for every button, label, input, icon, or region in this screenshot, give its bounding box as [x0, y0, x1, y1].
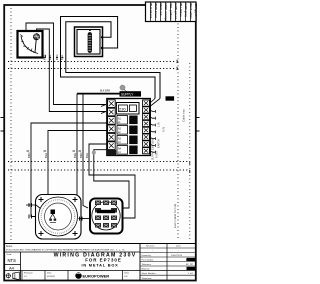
svg-text:GRN green: GRN green: [174, 3, 178, 19]
svg-text:Revision: Revision: [146, 246, 155, 248]
X1 bottom label: [107, 150, 116, 156]
wire colour legend table: [146, 2, 198, 22]
junction dot grey: [120, 85, 125, 90]
wire E terminal row6 to fan unit right: [89, 144, 135, 218]
supply drop wire BLK to motor: [54, 94, 77, 212]
svg-text:G/Y g/yel: G/Y g/yel: [194, 3, 198, 16]
wire crossing labels top boundary: [43, 54, 65, 60]
wire W4 terminal row4 to motor hub: [48, 131, 107, 212]
projection symbol: [21, 271, 23, 281]
svg-text:A4: A4: [9, 266, 15, 271]
enclosure dashed boundary top pair: [8, 61, 177, 63]
X1 left terminals: [108, 100, 116, 150]
X1 relay row 3: [117, 136, 128, 145]
svg-text:BLK BRN: BLK BRN: [100, 90, 111, 93]
heater element capsule: [88, 33, 92, 53]
thermostat dial ticks: [20, 35, 32, 52]
svg-text:BRN: BRN: [27, 152, 31, 158]
svg-text:EUROPOWER: EUROPOWER: [83, 273, 110, 278]
title block: [4, 244, 196, 281]
svg-text:Cable tray: Cable tray: [182, 109, 186, 122]
X1 right terminals: [143, 100, 150, 154]
europower logo: [75, 272, 81, 278]
X1 relay row 2: [117, 126, 128, 135]
right outer dotted line: [189, 63, 191, 240]
X1 controller box: [116, 103, 139, 115]
svg-text:J.C.: J.C.: [24, 276, 28, 278]
svg-text:Telephone: Telephone: [142, 278, 153, 280]
svg-text:BLU: BLU: [44, 153, 48, 158]
junction dot on wire F: [92, 151, 96, 155]
motor M1 hub: [51, 210, 56, 215]
svg-text:SUPPLY: SUPPLY: [121, 92, 134, 96]
right inner dotted line: [177, 20, 179, 240]
motor M1 corner screws: [39, 197, 78, 236]
svg-text:Notes:: Notes:: [6, 245, 13, 248]
svg-text:U.K.: U.K.: [124, 276, 128, 278]
svg-text:BLU blue: BLU blue: [179, 3, 183, 17]
X1 relay row 4: [117, 146, 128, 155]
svg-text:Date: Date: [176, 245, 181, 248]
svg-text:1 of 1: 1 of 1: [188, 273, 194, 275]
fan unit left stubs: [79, 217, 91, 221]
X1 right stub wires: [149, 110, 155, 152]
svg-text:IF IN DOUBT ASK. THIS DRAWING: IF IN DOUBT ASK. THIS DRAWING IS COPYRIG…: [6, 249, 126, 252]
svg-text:IN METAL BOX: IN METAL BOX: [81, 263, 118, 268]
svg-text:L IN: L IN: [157, 122, 161, 127]
title block outer top line: [4, 243, 196, 245]
terminal block X1 outline: [107, 99, 151, 156]
X1 relay tiny text: [118, 119, 122, 155]
svg-text:BLK: BLK: [73, 153, 77, 158]
wire loop A heater to terminal block top: [61, 17, 156, 99]
terminal entry diagonals at top right: [151, 99, 161, 107]
fan unit center bar: [97, 210, 115, 213]
motor M1 inner circle: [45, 203, 72, 230]
right table: [139, 244, 141, 281]
notes row divider: [4, 251, 140, 253]
svg-text:ORG orange: ORG orange: [164, 3, 168, 22]
svg-text:15/07/2013: 15/07/2013: [171, 255, 183, 257]
wire crossing labels bottom boundary: [27, 152, 89, 158]
motor M1 text ring dotted: [41, 200, 75, 234]
supply label black box right: [166, 96, 175, 100]
drawing frame: [4, 5, 196, 281]
thermostat TH1 enclosure: [18, 31, 43, 58]
enclosure dashed boundary bottom pair: [8, 161, 190, 163]
svg-text:Telep: Telep: [124, 273, 130, 275]
svg-text:EARTH: EARTH: [157, 139, 161, 148]
motor M1 outer ring: [39, 197, 78, 236]
svg-text:YEL yellow: YEL yellow: [169, 3, 173, 20]
motor hub stubs: [50, 214, 55, 219]
wire W3 terminal row3 to motor left: [31, 123, 107, 217]
svg-text:NTS: NTS: [8, 258, 17, 263]
svg-text:Drawn by: Drawn by: [142, 254, 152, 257]
motor left connector marks: [29, 203, 32, 219]
supply cable thick wire: [77, 93, 120, 95]
svg-text:Earth cable from lid: Earth cable from lid: [173, 203, 177, 228]
fan unit C1 body: [90, 199, 123, 234]
wire loop B heater to terminal block top: [66, 22, 160, 99]
svg-text:Part number: Part number: [142, 259, 154, 262]
svg-text:RED red: RED red: [159, 3, 163, 15]
svg-text:BLK black: BLK black: [149, 3, 153, 18]
left column cells: [20, 252, 22, 281]
fan unit circle: [92, 202, 120, 230]
svg-text:BRN brwn: BRN brwn: [154, 3, 158, 18]
svg-text:GRY grey: GRY grey: [184, 3, 188, 17]
heater element E1 enclosure: [75, 27, 103, 57]
svg-text:05/2008: 05/2008: [47, 276, 55, 278]
svg-text:Firmware: Firmware: [24, 272, 34, 275]
frame centering ticks: [1, 118, 200, 132]
thermostat knob: [33, 34, 39, 40]
fan unit terminal grid: [95, 201, 117, 228]
svg-text:N IN: N IN: [162, 127, 166, 132]
left margin dotted line: [10, 8, 12, 240]
thermostat dial arc: [21, 36, 34, 52]
svg-text:Sheet Number: Sheet Number: [142, 272, 156, 275]
svg-text:Scale: Scale: [7, 254, 13, 256]
motor M1 flange: [36, 195, 82, 240]
right stub labels: [157, 122, 166, 148]
thermostat pointer: [35, 39, 36, 53]
svg-text:230: 230: [119, 106, 126, 111]
X1 relay row 1: [117, 116, 128, 125]
supply cable label: [120, 91, 142, 96]
bottom band dividers: [44, 271, 46, 281]
wire T1 thermostat to terminal X1 row1: [26, 23, 106, 105]
wire F terminal bottom to fan unit right: [94, 150, 129, 208]
svg-text:N OUT: N OUT: [156, 150, 159, 158]
svg-text:WHT white: WHT white: [189, 3, 193, 19]
svg-text:BRN: BRN: [79, 152, 83, 158]
supply drop wire BRN to fan unit: [83, 94, 88, 208]
svg-text:Tolerance: Tolerance: [142, 263, 152, 266]
wire T2 thermostat knob to terminal X1 row2: [37, 29, 107, 112]
svg-text:BLU: BLU: [85, 153, 89, 158]
svg-text:SUPPLY 230V 50Hz: SUPPLY 230V 50Hz: [152, 137, 155, 160]
svg-text:Material: Material: [142, 268, 150, 271]
